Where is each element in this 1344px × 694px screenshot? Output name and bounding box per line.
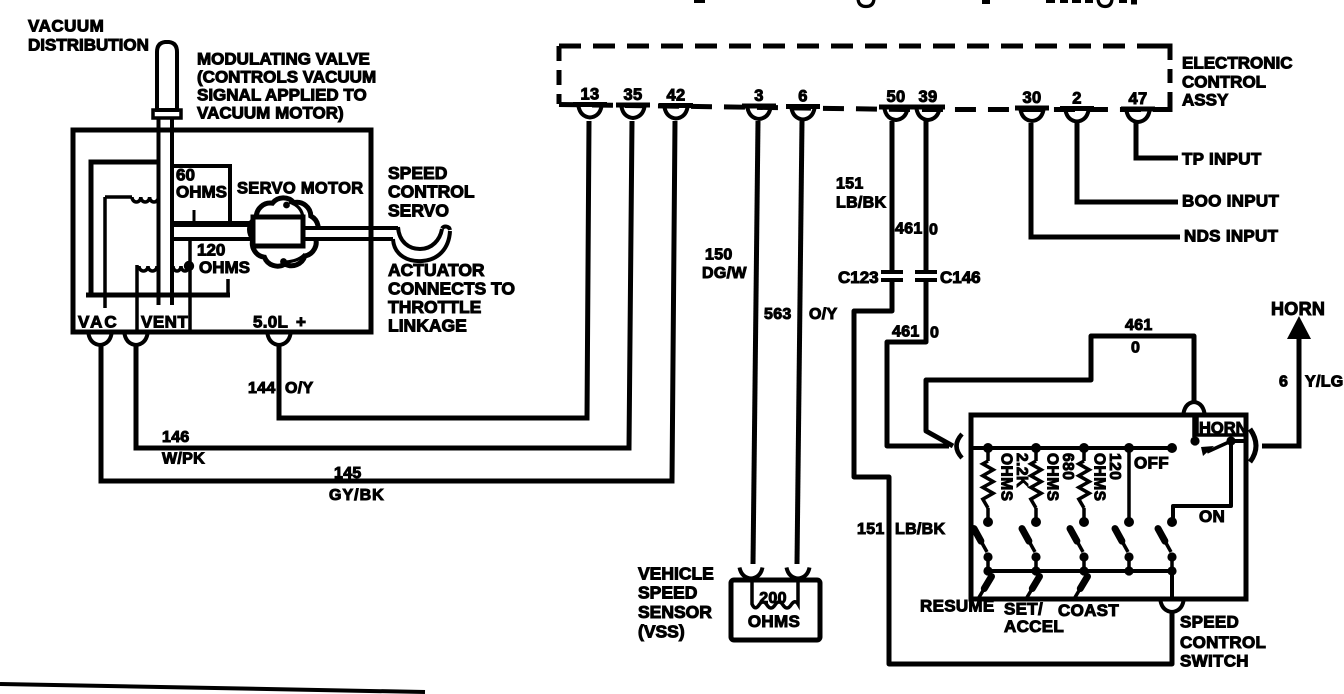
lower blade x=1084: [1074, 574, 1089, 599]
svg-text:30: 30: [1023, 89, 1042, 107]
svg-text:(VSS): (VSS): [638, 622, 685, 642]
ECA pin 35: [616, 103, 650, 108]
svg-text:Y/LG: Y/LG: [1305, 374, 1344, 391]
svg-text:2: 2: [1072, 90, 1081, 108]
svg-text:LB/BK: LB/BK: [895, 521, 946, 538]
svg-text:SET/: SET/: [1004, 600, 1043, 619]
horn label divider: [1197, 417, 1244, 435]
svg-text:563: 563: [764, 306, 792, 323]
svg-text:NDS INPUT: NDS INPUT: [1184, 227, 1279, 246]
bus junction node x=988: [983, 443, 993, 453]
wire NDS input : pin 30: [1031, 123, 1180, 237]
horn contact node: [1190, 436, 1199, 445]
svg-text:42: 42: [667, 87, 686, 105]
switch inline connector left: [957, 434, 963, 458]
svg-text:200: 200: [759, 590, 787, 607]
switch contact and blade x=1036: [1031, 517, 1041, 527]
svg-text:151: 151: [857, 521, 885, 538]
coil junction node: [184, 261, 194, 271]
svg-text:HORN: HORN: [1271, 299, 1325, 319]
vac coil 120 ohms: [135, 265, 139, 330]
ECA pin 39: [911, 105, 945, 110]
horn contact cup on box top: [1183, 402, 1205, 417]
svg-text:0: 0: [930, 325, 939, 342]
svg-text:GY/BK: GY/BK: [329, 487, 385, 504]
svg-text:150: 150: [705, 247, 733, 264]
svg-text:461: 461: [892, 324, 920, 341]
VSS terminal cups: [740, 568, 763, 579]
horn arrow: [1287, 316, 1311, 339]
svg-text:(CONTROLS VACUUM: (CONTROLS VACUUM: [197, 68, 376, 87]
svg-text:O/Y: O/Y: [285, 380, 313, 397]
svg-text:SWITCH: SWITCH: [1180, 652, 1249, 671]
svg-text:W/PK: W/PK: [162, 451, 205, 468]
svg-text:ACTUATOR: ACTUATOR: [388, 260, 485, 280]
speed control switch box: [971, 415, 1246, 599]
svg-text:35: 35: [624, 86, 643, 104]
ECA bracket corners: [1156, 46, 1170, 58]
svg-text:CONTROL: CONTROL: [1180, 633, 1266, 652]
svg-text:SERVO MOTOR: SERVO MOTOR: [237, 180, 363, 198]
120 ohm stub: [226, 279, 230, 295]
svg-text:ON: ON: [1199, 507, 1225, 526]
svg-text:120: 120: [197, 241, 225, 260]
wire 146 W/PK : VENT to pin 35: [136, 121, 632, 448]
svg-text:C146: C146: [940, 268, 981, 287]
svg-text:OFF: OFF: [1134, 454, 1169, 473]
svg-text:50: 50: [887, 88, 906, 106]
svg-text:CONNECTS TO: CONNECTS TO: [388, 279, 515, 299]
120 ohm sub-box top: [170, 237, 251, 241]
svg-text:ACCEL: ACCEL: [1004, 617, 1064, 636]
svg-text:SENSOR: SENSOR: [638, 602, 712, 622]
svg-text:0: 0: [1131, 340, 1140, 357]
ECA pin 30: [1015, 106, 1049, 111]
svg-text:LB/BK: LB/BK: [836, 195, 887, 212]
svg-text:BOO INPUT: BOO INPUT: [1182, 192, 1279, 211]
svg-text:VAC: VAC: [78, 313, 119, 332]
svg-text:13: 13: [581, 86, 600, 104]
svg-text:O/Y: O/Y: [809, 306, 837, 323]
svg-text:RESUME: RESUME: [920, 597, 995, 616]
svg-text:151: 151: [836, 176, 864, 193]
switch contact and blade x=1172: [1167, 517, 1177, 527]
speed control servo box: [73, 130, 371, 332]
switch contact and blade x=988: [983, 517, 993, 527]
svg-text:VEHICLE: VEHICLE: [638, 564, 714, 584]
svg-text:OHMS: OHMS: [199, 258, 250, 277]
label 2.2K OHMS: [998, 453, 1031, 502]
svg-text:OHMS: OHMS: [998, 453, 1015, 502]
wire 461 O : pin 39 through C146 to switch feed: [924, 121, 929, 270]
vent coil 60 ohms: [105, 195, 132, 199]
svg-text:SPEED: SPEED: [638, 583, 697, 603]
return bus node x=1084: [1079, 566, 1088, 575]
svg-text:680: 680: [1059, 453, 1076, 480]
return bus node x=988: [983, 566, 992, 575]
svg-text:2.2K: 2.2K: [1013, 453, 1030, 488]
svg-text:3: 3: [754, 87, 763, 105]
wire 563 O/Y : pin 6 to VSS: [797, 121, 802, 564]
svg-text:VACUUM: VACUUM: [28, 17, 104, 36]
bus junction node x=1172: [1167, 443, 1177, 453]
bus junction node x=1036: [1031, 443, 1041, 453]
servo terminal cup VAC: [89, 334, 112, 345]
ECA pin 50: [879, 105, 913, 110]
VSS 200 ohm core box: [752, 581, 798, 608]
60 ohms sub-box: [172, 166, 230, 221]
actuator rod: [303, 226, 398, 230]
servo motor: [250, 198, 319, 266]
svg-text:5.0L: 5.0L: [253, 313, 288, 332]
svg-text:461: 461: [895, 221, 923, 238]
svg-text:SERVO: SERVO: [388, 201, 449, 221]
lower blade x=988: [978, 574, 993, 599]
svg-text:6: 6: [1279, 374, 1288, 391]
inner chamber outline: [91, 162, 158, 294]
resistor 680 OHMS: [1034, 452, 1038, 461]
svg-text:39: 39: [919, 88, 938, 106]
resistor 2.2K OHMS: [986, 452, 990, 461]
horn pivot node: [1226, 436, 1235, 445]
wire 461 O : horn switch to clutch/feed: [926, 336, 1194, 446]
switch return bus: [988, 569, 1172, 573]
svg-text:144: 144: [248, 380, 276, 397]
wire 6 Y/LG : horn feed: [1262, 337, 1299, 446]
wire BOO input : pin 2: [1077, 123, 1178, 202]
svg-text:OHMS: OHMS: [176, 183, 227, 202]
ECA pin 2: [1060, 106, 1094, 111]
svg-text:ELECTRONIC: ELECTRONIC: [1182, 54, 1293, 73]
wire 150 DG/W : pin 3 to VSS: [753, 121, 758, 564]
switch output cup: [1161, 601, 1184, 612]
motor bottom curl: [286, 254, 305, 262]
svg-text:C123: C123: [838, 268, 879, 287]
page rule line bottom-left: [0, 684, 425, 692]
svg-text:TP INPUT: TP INPUT: [1182, 150, 1262, 169]
wire 151 LB/BK lower run: [854, 282, 1172, 664]
rod clearance: [303, 230, 321, 237]
horn blade: [1207, 442, 1229, 452]
servo terminal cup VENT: [125, 334, 148, 345]
motor coupling: [253, 217, 303, 246]
svg-text:OHMS: OHMS: [748, 612, 800, 631]
OFF branch wire: [1127, 452, 1131, 518]
servo motor rod left: [174, 221, 253, 227]
return bus node x=1129: [1124, 566, 1133, 575]
VAC branch wire: [103, 197, 107, 308]
svg-text:CONTROL: CONTROL: [388, 182, 475, 202]
ECA pin 3: [742, 104, 776, 109]
svg-text:OHMS: OHMS: [1091, 453, 1108, 502]
svg-text:HORN: HORN: [1199, 420, 1248, 438]
electronic control assy dashed outline: [559, 46, 1170, 110]
wire horn pivot to ON contact: [1173, 445, 1231, 518]
svg-text:SIGNAL APPLIED TO: SIGNAL APPLIED TO: [197, 86, 367, 105]
ECA pin 6: [786, 104, 820, 109]
bus junction node x=1129: [1124, 443, 1134, 453]
wire 145 GY/BK : VAC to pin 42: [101, 121, 675, 481]
ECA pin 13: [573, 102, 607, 107]
switch contact and blade x=1084: [1079, 517, 1089, 527]
horn pivot to edge: [1231, 439, 1246, 443]
svg-text:145: 145: [334, 465, 362, 482]
svg-text:LINKAGE: LINKAGE: [388, 316, 467, 336]
label 680 OHMS: [1044, 453, 1077, 502]
ECA pin 42: [659, 103, 693, 108]
svg-text:ASSY: ASSY: [1182, 91, 1229, 110]
svg-text:MODULATING VALVE: MODULATING VALVE: [197, 50, 370, 69]
title fragment (cut-off heading text): [694, 0, 1137, 5]
svg-text:SPEED: SPEED: [388, 163, 447, 183]
wire 144 O/Y : 5.0L+ to pin 13: [279, 121, 589, 418]
switch inline connector right: [1250, 429, 1256, 462]
svg-text:+: +: [296, 313, 306, 332]
capacitor C146: [915, 270, 937, 274]
svg-text:146: 146: [162, 429, 190, 446]
valve stem walls: [157, 118, 161, 305]
chamber bottom line: [86, 293, 230, 298]
bus junction node x=1084: [1079, 443, 1089, 453]
actuator hook: [398, 227, 442, 249]
svg-text:0: 0: [929, 222, 938, 239]
switch feed bus: [973, 446, 1172, 450]
svg-text:461: 461: [1125, 317, 1153, 334]
servo terminal cup 5.0L: [268, 334, 291, 345]
svg-text:VACUUM MOTOR): VACUUM MOTOR): [197, 104, 344, 123]
svg-text:120: 120: [1106, 453, 1123, 480]
svg-text:OHMS: OHMS: [1044, 453, 1061, 502]
switch contact and blade x=1129: [1124, 517, 1134, 527]
svg-text:47: 47: [1129, 90, 1148, 108]
resistor 120 OHMS: [1082, 452, 1086, 461]
junction drop wire: [188, 240, 192, 330]
wire 151 LB/BK : pin 50 through C123 to switch common: [890, 121, 895, 270]
return bus node x=1036: [1031, 566, 1040, 575]
svg-text:VENT: VENT: [141, 313, 188, 332]
valve collar: [153, 110, 181, 118]
wire TP input : pin 47: [1136, 123, 1178, 158]
svg-text:CONTROL: CONTROL: [1182, 73, 1266, 92]
ON column to output: [1170, 571, 1174, 597]
lower blade x=1036: [1026, 574, 1041, 599]
svg-text:THROTTLE: THROTTLE: [388, 297, 481, 317]
label 120 OHMS: [1091, 453, 1124, 502]
capacitor C123: [881, 270, 903, 274]
vehicle speed sensor box: [731, 580, 820, 640]
modulating valve stem cap: [157, 42, 177, 110]
svg-text:DISTRIBUTION: DISTRIBUTION: [28, 36, 149, 55]
ECA pin 47: [1121, 107, 1155, 112]
svg-text:SPEED: SPEED: [1180, 613, 1239, 632]
return bus node x=1172: [1167, 566, 1176, 575]
svg-text:DG/W: DG/W: [702, 265, 747, 282]
svg-text:COAST: COAST: [1058, 601, 1119, 620]
svg-text:6: 6: [798, 88, 807, 106]
motor top curl: [289, 202, 303, 218]
